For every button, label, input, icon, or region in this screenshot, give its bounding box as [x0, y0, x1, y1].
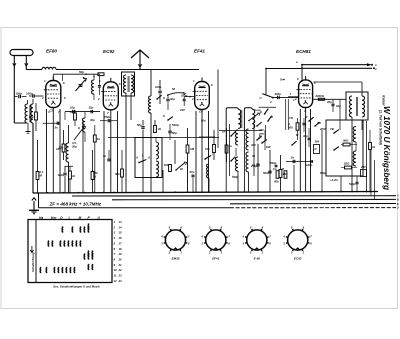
svg-text:240: 240 — [179, 108, 185, 112]
svg-text:1n: 1n — [229, 144, 233, 148]
svg-text:52: 52 — [172, 87, 176, 91]
svg-text:A: A — [135, 156, 138, 160]
svg-text:30p: 30p — [170, 97, 175, 101]
svg-text:4: 4 — [113, 236, 116, 240]
svg-text:Ha: Ha — [39, 216, 43, 220]
svg-text:62Ω: 62Ω — [344, 162, 350, 166]
svg-text:18: 18 — [119, 247, 123, 251]
svg-text:40k: 40k — [273, 180, 279, 184]
svg-text:100p: 100p — [26, 92, 33, 96]
svg-text:54Ωp: 54Ωp — [172, 123, 179, 127]
svg-text:10k: 10k — [70, 110, 75, 114]
svg-text:13: 13 — [119, 220, 123, 224]
svg-text:TR: TR — [289, 116, 293, 120]
svg-text:Ker: Ker — [51, 216, 57, 220]
svg-text:4: 4 — [282, 235, 285, 239]
svg-text:16: 16 — [119, 236, 123, 240]
svg-text:TB: TB — [330, 127, 334, 131]
svg-text:2: 2 — [168, 251, 171, 255]
svg-text:ECH81: ECH81 — [296, 49, 311, 54]
svg-text:Ca: Ca — [273, 167, 277, 171]
svg-text:KW: KW — [266, 145, 271, 149]
svg-text:11: 11 — [114, 274, 117, 278]
svg-text:24: 24 — [118, 279, 123, 283]
svg-text:EC92: EC92 — [294, 257, 302, 261]
svg-text:EM35: EM35 — [172, 257, 180, 261]
svg-text:EF41: EF41 — [212, 257, 220, 261]
svg-text:5n: 5n — [55, 126, 59, 130]
svg-text:EF80: EF80 — [46, 49, 57, 54]
svg-text:R: R — [315, 147, 317, 151]
svg-text:4: 4 — [241, 235, 244, 239]
svg-text:4: 4 — [160, 235, 163, 239]
svg-text:L: L — [69, 216, 71, 220]
svg-text:2: 2 — [290, 251, 293, 255]
svg-text:j: j — [211, 152, 213, 156]
svg-text:O: O — [60, 216, 63, 220]
svg-text:2: 2 — [208, 251, 211, 255]
svg-text:300: 300 — [288, 126, 293, 130]
svg-text:30p: 30p — [303, 134, 308, 138]
svg-text:2: 2 — [113, 225, 116, 229]
svg-text:240: 240 — [360, 165, 366, 169]
svg-text:1M: 1M — [283, 172, 288, 176]
svg-text:12: 12 — [114, 279, 118, 283]
svg-text:(1. Teil von Schaltbild): (1. Teil von Schaltbild) — [379, 110, 383, 145]
svg-text:14: 14 — [119, 225, 123, 229]
svg-text:M: M — [79, 216, 82, 220]
svg-text:ZF = 468 kHz + 10,7MHz: ZF = 468 kHz + 10,7MHz — [49, 201, 102, 206]
svg-text:100p: 100p — [58, 173, 65, 177]
svg-text:120p: 120p — [306, 163, 313, 167]
svg-text:1k: 1k — [72, 174, 76, 178]
svg-text:540p: 540p — [320, 171, 327, 175]
svg-text:30: 30 — [252, 154, 256, 158]
svg-text:2: 2 — [97, 97, 100, 101]
svg-text:50p: 50p — [79, 70, 84, 74]
svg-text:E-90: E-90 — [254, 257, 261, 261]
svg-text:300p: 300p — [275, 92, 282, 96]
svg-text:100p: 100p — [16, 91, 23, 95]
svg-text:100: 100 — [164, 163, 169, 167]
svg-text:50n: 50n — [201, 119, 206, 123]
svg-text:240p: 240p — [250, 164, 258, 168]
svg-text:2n: 2n — [290, 156, 295, 160]
svg-text:2000Ω: 2000Ω — [315, 94, 325, 98]
svg-text:1M: 1M — [190, 147, 195, 151]
svg-text:100p: 100p — [155, 85, 162, 89]
svg-text:540p: 540p — [349, 182, 356, 186]
svg-text:Schaltrichtung: Schaltrichtung — [31, 252, 35, 272]
svg-text:2: 2 — [249, 251, 252, 255]
svg-text:4kΩ: 4kΩ — [342, 139, 349, 143]
svg-text:67p: 67p — [190, 170, 195, 174]
svg-text:2: 2 — [292, 98, 295, 102]
svg-text:17: 17 — [119, 241, 123, 245]
svg-text:2k: 2k — [157, 127, 162, 131]
svg-text:50μ: 50μ — [137, 123, 142, 127]
svg-text:2: 2 — [191, 97, 194, 101]
svg-text:10k: 10k — [205, 147, 210, 151]
svg-text:540p: 540p — [270, 161, 277, 165]
svg-text:20p: 20p — [326, 100, 332, 104]
svg-text:5000: 5000 — [263, 171, 270, 175]
svg-text:2k: 2k — [179, 167, 184, 171]
svg-text:21: 21 — [118, 263, 123, 267]
svg-text:30p: 30p — [89, 106, 94, 110]
svg-text:Ges. Schaltstellungen U und M: Ges. Schaltstellungen U und Musik — [53, 285, 100, 289]
svg-text:20p: 20p — [71, 144, 77, 148]
svg-text:10: 10 — [114, 268, 118, 272]
svg-text:30p: 30p — [90, 118, 95, 122]
svg-text:L: L — [142, 154, 144, 158]
svg-text:50p: 50p — [172, 131, 177, 135]
svg-text:+4,2m: +4,2m — [330, 178, 339, 182]
svg-text:5+: 5+ — [280, 78, 284, 82]
svg-text:20: 20 — [118, 257, 123, 261]
svg-text:o: o — [375, 67, 377, 71]
svg-text:300: 300 — [251, 143, 256, 147]
svg-text:EC92: EC92 — [103, 49, 115, 54]
svg-text:1k: 1k — [97, 137, 101, 141]
svg-text:EF41: EF41 — [194, 49, 205, 54]
svg-text:23: 23 — [118, 274, 123, 278]
svg-text:250p: 250p — [103, 115, 111, 119]
svg-text:TR: TR — [317, 121, 321, 125]
svg-text:2: 2 — [41, 96, 44, 100]
svg-text:5n: 5n — [103, 154, 107, 158]
svg-text:19: 19 — [119, 252, 123, 256]
svg-text:50k: 50k — [115, 172, 120, 176]
svg-text:22: 22 — [118, 268, 123, 272]
svg-text:10k: 10k — [29, 115, 34, 119]
svg-text:300: 300 — [315, 140, 320, 144]
svg-text:2000: 2000 — [319, 127, 327, 131]
svg-text:10p: 10p — [70, 106, 75, 110]
svg-text:15: 15 — [119, 231, 123, 235]
svg-text:1n: 1n — [222, 130, 226, 134]
svg-text:2: 2 — [269, 100, 272, 104]
svg-text:p/m: p/m — [258, 131, 264, 135]
svg-text:10k: 10k — [56, 147, 61, 151]
svg-text:4: 4 — [200, 235, 203, 239]
svg-text:548p: 548p — [232, 175, 239, 179]
svg-text:1k: 1k — [372, 145, 376, 149]
svg-text:Kaiser: Kaiser — [382, 95, 386, 106]
